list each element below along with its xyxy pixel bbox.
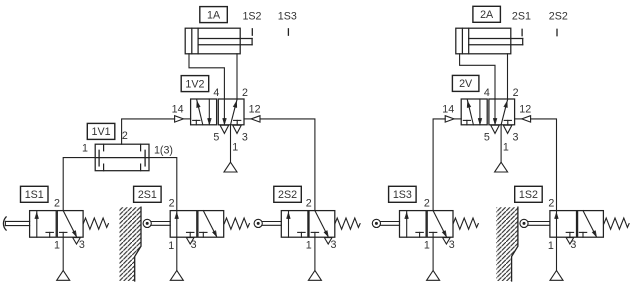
svg-text:1: 1: [54, 240, 60, 252]
svg-text:4: 4: [213, 87, 219, 99]
svg-text:2S2: 2S2: [278, 189, 297, 201]
svg-text:3: 3: [449, 239, 455, 251]
svg-text:1V1: 1V1: [92, 126, 111, 138]
svg-text:2: 2: [424, 198, 430, 210]
svg-text:1S3: 1S3: [278, 10, 297, 22]
svg-text:1A: 1A: [207, 9, 221, 21]
svg-text:2: 2: [513, 87, 519, 99]
svg-text:5: 5: [213, 132, 219, 144]
svg-text:2S2: 2S2: [549, 10, 568, 22]
svg-text:2S1: 2S1: [512, 10, 531, 22]
svg-text:3: 3: [570, 239, 576, 251]
svg-text:3: 3: [191, 239, 197, 251]
svg-text:12: 12: [519, 104, 531, 116]
svg-text:2: 2: [242, 87, 248, 99]
svg-text:1: 1: [168, 240, 174, 252]
svg-text:1: 1: [232, 141, 238, 153]
svg-text:1S2: 1S2: [519, 189, 538, 201]
svg-text:12: 12: [249, 104, 261, 116]
svg-text:1V2: 1V2: [185, 78, 204, 90]
svg-text:1: 1: [548, 240, 554, 252]
svg-text:2A: 2A: [480, 9, 494, 21]
svg-text:1S3: 1S3: [393, 189, 412, 201]
svg-text:14: 14: [172, 104, 184, 116]
svg-text:1: 1: [503, 141, 509, 153]
svg-text:2S1: 2S1: [138, 189, 157, 201]
svg-text:2: 2: [548, 198, 554, 210]
svg-text:1: 1: [424, 240, 430, 252]
svg-text:3: 3: [79, 239, 85, 251]
svg-text:4: 4: [484, 87, 490, 99]
svg-text:1S1: 1S1: [25, 189, 44, 201]
svg-text:2V: 2V: [459, 78, 473, 90]
svg-text:1(3): 1(3): [154, 145, 173, 157]
svg-text:3: 3: [242, 132, 248, 144]
svg-text:14: 14: [442, 104, 454, 116]
svg-text:3: 3: [331, 239, 337, 251]
svg-text:3: 3: [513, 132, 519, 144]
svg-text:2: 2: [122, 130, 128, 142]
svg-text:1S2: 1S2: [242, 10, 261, 22]
svg-text:5: 5: [484, 132, 490, 144]
svg-text:2: 2: [306, 198, 312, 210]
svg-text:2: 2: [169, 198, 175, 210]
svg-text:1: 1: [82, 143, 88, 155]
svg-text:1: 1: [306, 240, 312, 252]
svg-text:2: 2: [54, 198, 60, 210]
